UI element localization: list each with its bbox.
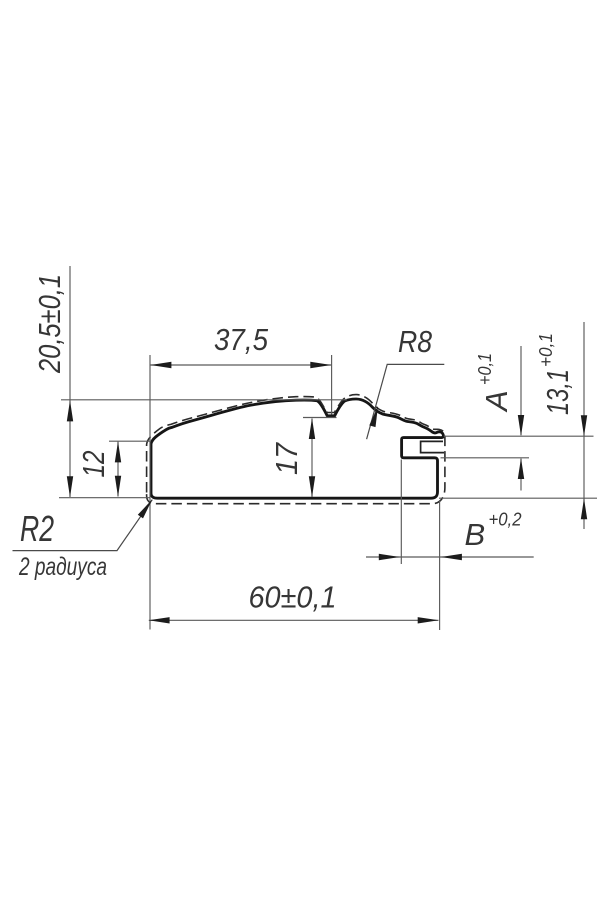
extension line 12 (y=441.2) — [109, 440, 151, 442]
leader R8 — [367, 364, 445, 439]
extension line bottom-left (y=497.7) — [59, 497, 150, 499]
profile outline (moulding cross-section) — [151, 399, 443, 498]
dimension 17 vertical x=312 — [311, 419, 313, 498]
svg-text:R8: R8 — [398, 324, 433, 359]
extension line right bottom (y=498.2) — [439, 497, 597, 499]
svg-text:12: 12 — [76, 451, 111, 478]
leader R2 with note — [13, 500, 153, 551]
extension line x=331.6 from notch — [331, 355, 333, 415]
svg-text:+0,2: +0,2 — [489, 510, 522, 530]
svg-text:+0,1: +0,1 — [536, 333, 556, 367]
svg-text:2 радиуса: 2 радиуса — [18, 553, 107, 581]
extension line 17 (y=417.5) — [303, 417, 337, 419]
extension line right top (y=436.2) — [444, 435, 594, 437]
svg-text:A: A — [479, 390, 514, 413]
dimension 13,1 vertical x=584 — [583, 322, 585, 529]
dimension B horizontal y=557 — [366, 556, 534, 558]
extension line right x=439.6 (B and 60) — [439, 500, 441, 630]
svg-text:60±0,1: 60±0,1 — [249, 580, 337, 615]
svg-text:B: B — [465, 517, 486, 552]
svg-text:17: 17 — [269, 441, 304, 475]
dimension A vertical x=521 — [520, 346, 522, 435]
groove slot walls — [421, 441, 444, 452]
extension line top (y=400.7 level of peaks) — [61, 399, 347, 401]
svg-text:37,5: 37,5 — [214, 322, 269, 357]
dashed film/overlay contour — [147, 395, 445, 504]
extension line left vertical x=150 (37,5 and 60) — [149, 355, 151, 630]
svg-text:+0,1: +0,1 — [475, 353, 495, 385]
extension line right mid (y=457.8) — [441, 457, 530, 459]
dimension line 20,5 vertical x=70 — [69, 266, 71, 497]
dimension line 60 (y=620.3) — [149, 619, 439, 621]
extension line B left x=401.3 — [400, 460, 402, 565]
svg-text:R2: R2 — [20, 508, 54, 549]
svg-text:20,5±0,1: 20,5±0,1 — [32, 274, 67, 374]
dimension line 37,5 (y=365) — [151, 364, 332, 366]
svg-text:13,1: 13,1 — [540, 369, 575, 415]
dimension 12 vertical x=118 — [117, 442, 119, 497]
